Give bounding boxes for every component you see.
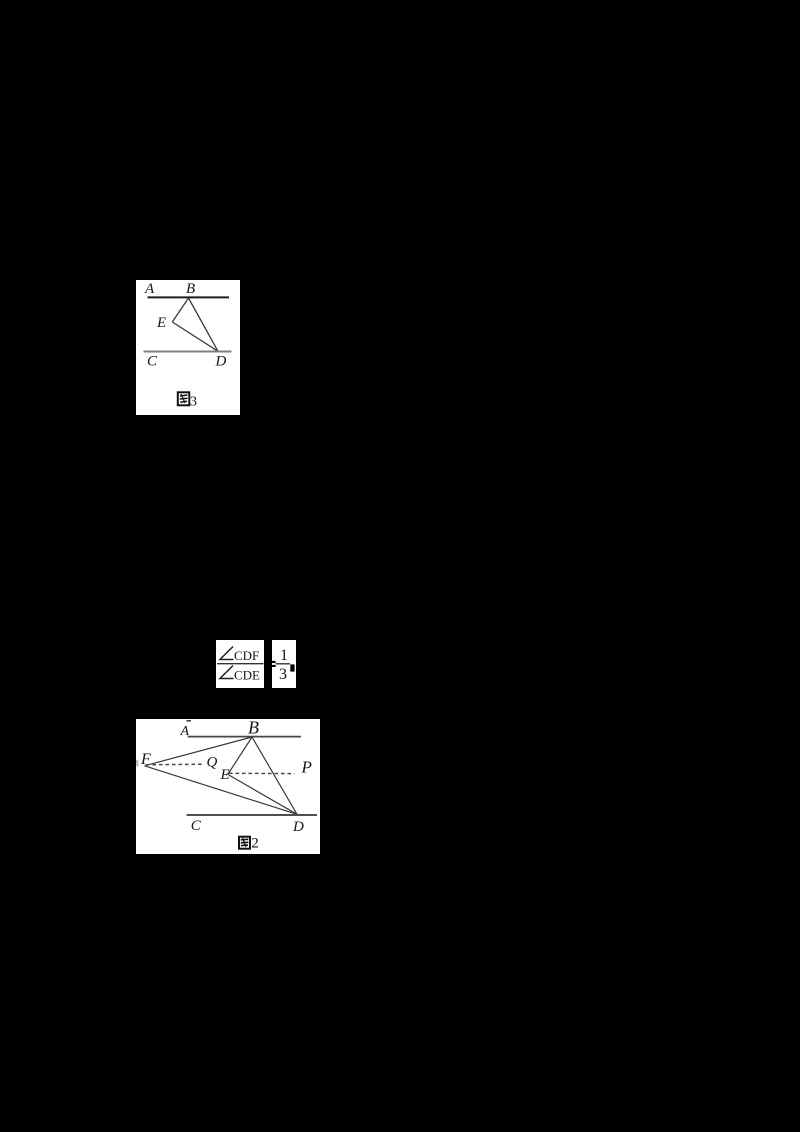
svg-text:Q: Q xyxy=(207,755,218,771)
svg-text:B: B xyxy=(248,719,259,738)
svg-text:E: E xyxy=(156,315,166,331)
svg-text:P: P xyxy=(301,757,312,776)
svg-text:3: 3 xyxy=(190,395,197,410)
svg-text:E: E xyxy=(220,767,230,783)
svg-text:D: D xyxy=(215,354,227,370)
svg-text:A: A xyxy=(144,281,155,297)
svg-text:CDF: CDF xyxy=(234,648,259,663)
svg-text:B: B xyxy=(186,281,195,297)
svg-text:2: 2 xyxy=(251,836,258,852)
svg-text:3: 3 xyxy=(279,666,287,683)
svg-text:F: F xyxy=(140,751,151,768)
svg-text:1: 1 xyxy=(280,647,288,664)
svg-text:D: D xyxy=(292,819,304,835)
svg-text:C: C xyxy=(191,818,202,834)
svg-text:CDE: CDE xyxy=(234,667,260,682)
svg-text:C: C xyxy=(147,354,158,370)
